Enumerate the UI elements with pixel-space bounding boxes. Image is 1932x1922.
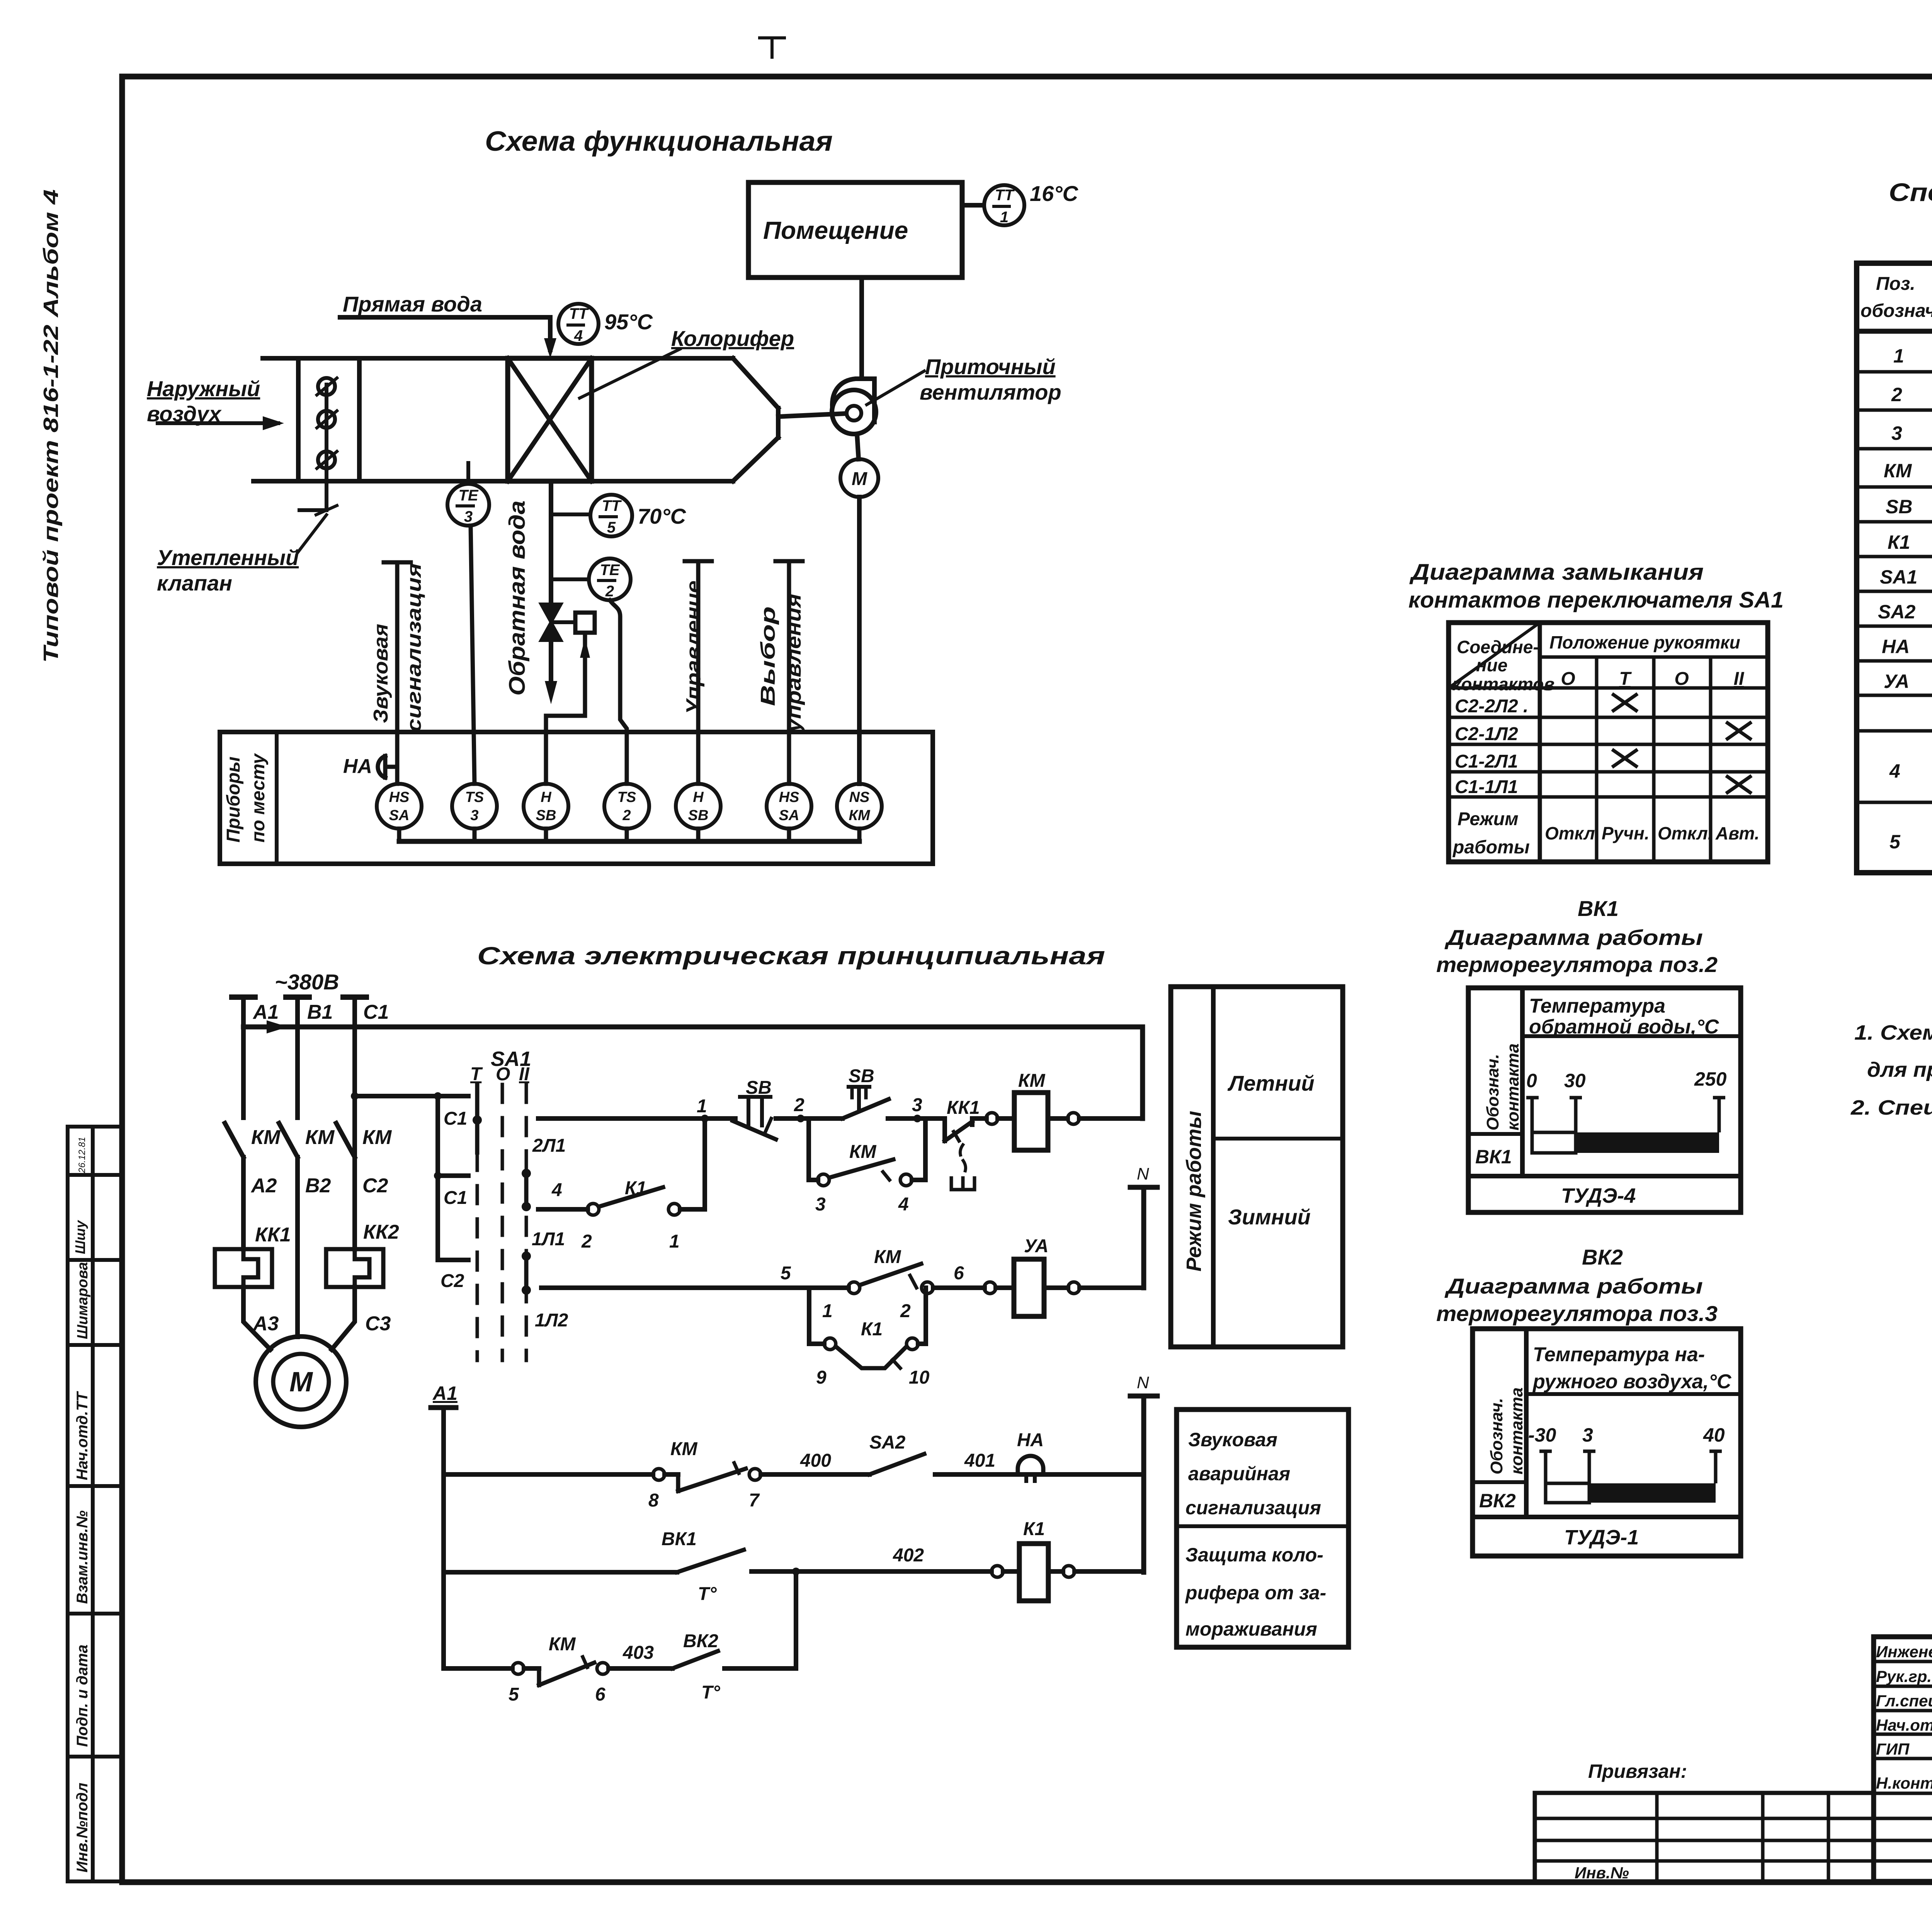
svg-text:Диаграмма замыкания: Диаграмма замыкания xyxy=(1409,560,1704,585)
svg-text:4: 4 xyxy=(551,1180,562,1200)
svg-text:~380В: ~380В xyxy=(275,970,339,994)
svg-text:С1-1Л1: С1-1Л1 xyxy=(1455,777,1518,797)
svg-text:УА: УА xyxy=(1884,671,1909,692)
BK1 scale ticks xyxy=(1526,1098,1725,1132)
svg-text:5: 5 xyxy=(1889,831,1901,853)
svg-text:SA2: SA2 xyxy=(1878,601,1915,623)
svg-text:1: 1 xyxy=(669,1231,680,1252)
duct section divider left xyxy=(296,358,301,481)
node 2 xyxy=(776,1115,842,1122)
svg-text:контактов: контактов xyxy=(1452,674,1554,694)
svg-text:10: 10 xyxy=(909,1367,930,1388)
bell HA symbol xyxy=(378,756,397,778)
svg-text:2: 2 xyxy=(794,1095,804,1115)
svg-text:ние: ние xyxy=(1476,655,1507,675)
SA1 C1 tap wire xyxy=(351,1092,468,1100)
left margin vertical project text xyxy=(39,189,63,663)
svg-text:SA1: SA1 xyxy=(1880,566,1917,588)
elec labels upper part xyxy=(250,1001,1149,1398)
wire TT5 tap xyxy=(551,512,590,516)
phase C1 input xyxy=(343,997,366,1118)
svg-text:Шимарова: Шимарова xyxy=(75,1262,91,1339)
rung 403: wire A1 to KM 5-6 xyxy=(444,1657,609,1685)
svg-text:TS: TS xyxy=(617,789,636,805)
thermostat contact VK1 xyxy=(677,1550,744,1572)
svg-text:КМ: КМ xyxy=(1018,1071,1046,1091)
svg-text:16°C: 16°C xyxy=(1030,181,1079,206)
thermal heater KK1 xyxy=(215,1249,272,1287)
svg-text:Летний: Летний xyxy=(1227,1071,1315,1095)
svg-text:аварийная: аварийная xyxy=(1188,1463,1290,1484)
KM main contact phase C xyxy=(336,1096,355,1249)
svg-text:Температура на-: Температура на- xyxy=(1533,1343,1705,1366)
svg-text:1: 1 xyxy=(697,1096,707,1117)
svg-text:О: О xyxy=(1674,669,1689,689)
wire room bottom to fan volute xyxy=(859,277,864,379)
svg-text:Управление: Управление xyxy=(682,581,705,715)
svg-text:SB: SB xyxy=(746,1078,772,1098)
wire 401 with bell HA xyxy=(935,1456,1144,1481)
svg-text:3: 3 xyxy=(464,508,473,525)
svg-text:Утепленный: Утепленный xyxy=(157,545,299,570)
svg-text:ТТ: ТТ xyxy=(995,187,1015,204)
svg-text:Спецификация на приборы: Спецификация на приборы и электроаппарат… xyxy=(1889,178,1932,206)
KM coil xyxy=(998,1093,1068,1150)
svg-text:Инв.№: Инв.№ xyxy=(1575,1864,1629,1882)
local instruments box xyxy=(220,732,933,864)
svg-text:К1: К1 xyxy=(625,1178,646,1198)
thermal heater KK2 xyxy=(326,1249,383,1287)
phase B1 input xyxy=(286,997,309,1118)
svg-text:9: 9 xyxy=(816,1367,827,1388)
SB stop button xyxy=(705,1097,776,1139)
svg-text:сигнализация: сигнализация xyxy=(403,563,425,732)
svg-text:400: 400 xyxy=(800,1450,831,1471)
rung 2L1 wire xyxy=(538,1116,705,1121)
svg-text:НА: НА xyxy=(1882,636,1910,657)
svg-text:клапан: клапан xyxy=(157,571,232,595)
svg-text:КМ: КМ xyxy=(362,1126,392,1149)
rung 1L1 wire xyxy=(538,1118,705,1215)
svg-text:2: 2 xyxy=(605,583,614,600)
left margin stamp strip xyxy=(68,1127,122,1881)
svg-text:Взам.инв.№: Взам.инв.№ xyxy=(74,1510,91,1604)
svg-text:ружного воздуха,°С: ружного воздуха,°С xyxy=(1532,1370,1732,1393)
BK2 scale ticks xyxy=(1539,1451,1722,1483)
svg-text:ТУДЭ-1: ТУДЭ-1 xyxy=(1564,1526,1639,1549)
svg-text:вентилятор: вентилятор xyxy=(920,380,1061,404)
svg-text:К1: К1 xyxy=(1023,1519,1045,1539)
svg-text:М: М xyxy=(289,1367,313,1398)
svg-text:4: 4 xyxy=(898,1194,909,1215)
svg-text:SB: SB xyxy=(1886,496,1912,518)
svg-text:КМ: КМ xyxy=(251,1126,281,1149)
svg-text:Диаграмма работы: Диаграмма работы xyxy=(1444,925,1703,950)
svg-text:H: H xyxy=(693,789,704,805)
svg-text:SB: SB xyxy=(688,807,709,824)
svg-text:Схема электрическая принцип: Схема электрическая принципиальная xyxy=(477,942,1105,970)
svg-text:Помещение: Помещение xyxy=(763,216,908,244)
functional schema labels xyxy=(147,181,1079,843)
svg-text:HS: HS xyxy=(389,789,410,805)
instrument TE2 xyxy=(589,558,631,600)
duct outlet cone xyxy=(733,358,778,481)
svg-text:С1: С1 xyxy=(444,1108,467,1129)
registration mark xyxy=(760,38,784,57)
svg-text:40: 40 xyxy=(1703,1424,1725,1446)
svg-text:1: 1 xyxy=(1893,345,1904,367)
svg-text:Рук.гр.: Рук.гр. xyxy=(1876,1667,1932,1685)
svg-text:2: 2 xyxy=(622,807,631,824)
SA1 position line T xyxy=(473,1084,482,1360)
svg-text:Зимний: Зимний xyxy=(1228,1205,1311,1229)
wire TE3 to TS3 xyxy=(471,526,474,784)
svg-text:N: N xyxy=(1137,1164,1149,1183)
SA1 table texts xyxy=(1452,632,1745,797)
bus line connecting bubbles xyxy=(399,829,859,841)
svg-text:Гл.спец.: Гл.спец. xyxy=(1876,1692,1932,1710)
BK2 table xyxy=(1473,1329,1741,1556)
svg-text:ТУДЭ-4: ТУДЭ-4 xyxy=(1561,1184,1636,1207)
svg-text:ВК2: ВК2 xyxy=(683,1631,718,1651)
svg-text:2: 2 xyxy=(900,1301,911,1321)
BK1 title xyxy=(1436,896,1718,977)
svg-text:4: 4 xyxy=(1889,760,1900,782)
svg-text:70°C: 70°C xyxy=(638,504,687,528)
bottom instrument bubbles row xyxy=(377,784,882,829)
svg-text:1: 1 xyxy=(822,1301,833,1321)
supply air duct top line xyxy=(263,356,733,361)
svg-text:SB: SB xyxy=(536,807,556,824)
svg-text:по месту: по месту xyxy=(248,753,269,843)
svg-text:403: 403 xyxy=(622,1643,654,1663)
svg-text:Температура: Температура xyxy=(1529,995,1665,1017)
instrument TT4 xyxy=(558,304,599,344)
svg-text:3: 3 xyxy=(1891,422,1902,444)
svg-text:КМ: КМ xyxy=(874,1247,901,1267)
svg-text:3: 3 xyxy=(815,1194,826,1215)
relay coil K1 xyxy=(992,1544,1144,1601)
svg-text:Соедине-: Соедине- xyxy=(1457,637,1539,657)
SA1 contact table xyxy=(1449,623,1768,862)
wire 400 xyxy=(761,1472,869,1477)
svg-text:С2-2Л2 .: С2-2Л2 . xyxy=(1455,696,1528,717)
room box Помещение xyxy=(748,182,962,277)
svg-text:Выбор: Выбор xyxy=(757,606,779,706)
mode box (Rezhim raboty) xyxy=(1171,987,1343,1347)
svg-text:контакта: контакта xyxy=(1507,1387,1526,1474)
instrument TT1 xyxy=(984,185,1024,225)
svg-text:2Л1: 2Л1 xyxy=(532,1135,566,1156)
node 3 xyxy=(888,1115,945,1122)
svg-text:Звуковая: Звуковая xyxy=(1188,1429,1277,1450)
svg-text:Подп. и дата: Подп. и дата xyxy=(74,1645,91,1747)
signatures texts xyxy=(1876,1643,1932,1792)
svg-text:6: 6 xyxy=(595,1684,605,1705)
svg-text:для приточной системы П2.: для приточной системы П2. xyxy=(1867,1058,1932,1081)
svg-text:5: 5 xyxy=(607,519,616,536)
svg-text:SA2: SA2 xyxy=(869,1432,906,1453)
svg-text:Шшу: Шшу xyxy=(72,1220,88,1254)
leader kolorifer label xyxy=(580,349,680,398)
svg-text:Схема функциональная: Схема функциональная xyxy=(485,126,833,157)
wire C3 to motor xyxy=(332,1287,355,1350)
wire TE2 tap xyxy=(551,577,588,581)
svg-text:терморегулятора поз.3: терморегулятора поз.3 xyxy=(1436,1301,1718,1326)
svg-text:1Л2: 1Л2 xyxy=(535,1310,568,1331)
svg-text:SA: SA xyxy=(779,807,799,824)
SA1 diagram title xyxy=(1408,560,1784,613)
svg-text:С1: С1 xyxy=(363,1001,389,1023)
switch SA2 xyxy=(869,1454,924,1474)
svg-text:КК1: КК1 xyxy=(947,1098,980,1118)
svg-text:II: II xyxy=(1734,669,1745,689)
K1 bypass 9-10 xyxy=(809,1288,926,1368)
svg-text:30: 30 xyxy=(1564,1070,1586,1091)
svg-text:Режим: Режим xyxy=(1458,809,1519,829)
svg-text:О: О xyxy=(1561,669,1575,689)
svg-text:7: 7 xyxy=(749,1490,760,1511)
svg-text:6: 6 xyxy=(954,1263,964,1284)
supply air duct bottom line xyxy=(253,479,733,483)
svg-text:НА: НА xyxy=(1017,1430,1044,1450)
svg-text:SB: SB xyxy=(849,1066,874,1086)
svg-text:А2: А2 xyxy=(250,1175,277,1197)
svg-text:А1: А1 xyxy=(252,1001,279,1023)
svg-text:КМ: КМ xyxy=(1884,460,1912,482)
svg-text:В1: В1 xyxy=(307,1001,333,1023)
svg-text:С2: С2 xyxy=(440,1271,464,1291)
wire M down to NS KM xyxy=(857,497,862,784)
svg-text:Нач.отд: Нач.отд xyxy=(1876,1716,1932,1734)
svg-text:Защита коло-: Защита коло- xyxy=(1185,1544,1323,1566)
motor M xyxy=(256,1336,346,1427)
neutral N tee (UA rung) xyxy=(1130,1187,1157,1288)
alarm labels xyxy=(432,1373,1149,1705)
svg-text:HS: HS xyxy=(779,789,799,805)
svg-text:С2: С2 xyxy=(362,1175,388,1197)
svg-text:ВК2: ВК2 xyxy=(1582,1245,1623,1269)
svg-text:С3: С3 xyxy=(365,1313,391,1335)
KM coil terminal left xyxy=(986,1113,998,1124)
signal line control select with tee xyxy=(776,561,803,784)
svg-text:ТТ: ТТ xyxy=(569,305,589,322)
fan (centrifugal) xyxy=(832,379,876,434)
svg-text:TS: TS xyxy=(465,789,484,805)
svg-text:А3: А3 xyxy=(252,1313,279,1335)
svg-text:управления: управления xyxy=(783,594,805,733)
spec header texts xyxy=(1861,274,1932,321)
BK2 title xyxy=(1436,1245,1718,1326)
svg-text:2. Спецификация составлена: 2. Спецификация составлена для приточных… xyxy=(1850,1096,1932,1119)
valve actuator square xyxy=(551,613,595,633)
KM aux bypass 3-4 xyxy=(809,1118,925,1186)
phase A1 input xyxy=(232,997,255,1118)
svg-text:НА: НА xyxy=(343,755,372,778)
rung 402: wire A1 to VK1 xyxy=(444,1570,677,1575)
leader to warm damper label xyxy=(298,515,327,553)
return water pipe xyxy=(545,481,557,704)
svg-text:К1: К1 xyxy=(861,1319,883,1340)
svg-text:Обратная вода: Обратная вода xyxy=(505,501,530,696)
svg-text:Инженер: Инженер xyxy=(1876,1643,1932,1661)
svg-text:ВК1: ВК1 xyxy=(1578,896,1619,921)
stamp strip rotated labels xyxy=(72,1137,91,1873)
leader fan label xyxy=(867,371,924,405)
BK1 bar xyxy=(1532,1132,1719,1153)
svg-text:N: N xyxy=(1137,1373,1149,1392)
svg-text:Поз.: Поз. xyxy=(1876,274,1915,294)
svg-text:ВК1: ВК1 xyxy=(662,1529,697,1549)
BK1 table xyxy=(1468,988,1741,1212)
SA1 position line O xyxy=(501,1084,504,1360)
motor circle M xyxy=(840,459,878,497)
svg-text:терморегулятора поз.2: терморегулятора поз.2 xyxy=(1436,952,1718,977)
svg-text:Типовой проект 816-1-22 Ал: Типовой проект 816-1-22 Альбом 4 xyxy=(39,189,63,663)
svg-text:SA: SA xyxy=(389,807,410,824)
svg-text:Откл.: Откл. xyxy=(1545,823,1600,843)
svg-text:Инв.№подл: Инв.№подл xyxy=(74,1782,91,1873)
svg-text:4: 4 xyxy=(574,327,583,344)
svg-text:Н.контр: Н.контр xyxy=(1876,1774,1932,1792)
svg-text:H: H xyxy=(541,789,552,805)
top control bus xyxy=(243,1020,1143,1118)
svg-text:Прямая вода: Прямая вода xyxy=(343,292,482,316)
direct water pipe xyxy=(340,317,556,358)
svg-text:Режим работы: Режим работы xyxy=(1182,1111,1206,1272)
svg-text:ТЕ: ТЕ xyxy=(600,562,620,579)
svg-text:рифера от за-: рифера от за- xyxy=(1185,1582,1326,1604)
signatures table xyxy=(1874,1637,1932,1881)
control valve body xyxy=(541,604,561,640)
signal line control with tee xyxy=(685,561,712,784)
svg-text:Привязан:: Привязан: xyxy=(1588,1760,1687,1782)
svg-text:Т: Т xyxy=(1619,669,1632,689)
thermostat contact VK2 xyxy=(672,1651,718,1668)
spec rows: pos column xyxy=(1878,345,1917,853)
node A1 feeder xyxy=(431,1408,456,1668)
svg-text:250: 250 xyxy=(1694,1068,1727,1090)
svg-text:К1: К1 xyxy=(1888,531,1910,553)
BK2 texts xyxy=(1479,1343,1732,1549)
heater box with X (kolorifer) xyxy=(508,358,592,481)
svg-text:Т°: Т° xyxy=(698,1584,717,1604)
svg-text:ТТ: ТТ xyxy=(602,497,622,514)
svg-text:Авт.: Авт. xyxy=(1715,823,1759,843)
svg-text:работы: работы xyxy=(1452,837,1530,858)
svg-text:Нач.отд.ТТ: Нач.отд.ТТ xyxy=(74,1391,91,1480)
svg-text:1. Схема выполнена для пр: 1. Схема выполнена для приточной системы… xyxy=(1854,1021,1932,1044)
svg-text:КМ: КМ xyxy=(305,1126,335,1149)
svg-text:5: 5 xyxy=(509,1684,519,1705)
wire cone to fan xyxy=(778,414,845,417)
BK1 texts xyxy=(1475,995,1727,1207)
svg-text:УА: УА xyxy=(1024,1236,1049,1256)
svg-text:КК2: КК2 xyxy=(363,1221,399,1243)
svg-text:1Л1: 1Л1 xyxy=(532,1229,565,1250)
spec table grid xyxy=(1857,263,1932,873)
svg-text:обратной воды,°С: обратной воды,°С xyxy=(1529,1016,1719,1038)
KK1 thermal contact xyxy=(945,1118,986,1190)
rung 1L2 wire xyxy=(541,1264,985,1294)
damper blades rod xyxy=(299,378,337,515)
junction wire 402 to 403 xyxy=(794,1571,798,1668)
svg-text:95°C: 95°C xyxy=(604,310,653,334)
wire 403 xyxy=(609,1666,672,1671)
wire A3 to motor xyxy=(243,1287,270,1350)
KM main contact phase A xyxy=(225,1123,243,1249)
svg-text:С1: С1 xyxy=(444,1188,467,1208)
svg-text:Колорифер: Колорифер xyxy=(671,326,794,351)
svg-text:ВК2: ВК2 xyxy=(1479,1490,1516,1512)
svg-text:контакта: контакта xyxy=(1503,1044,1522,1130)
wire 402 xyxy=(752,1568,992,1575)
SA1 position line II xyxy=(522,1084,531,1360)
svg-text:NS: NS xyxy=(849,789,870,805)
SA1 left bracket xyxy=(434,1096,468,1260)
BK2 bar xyxy=(1546,1483,1716,1503)
svg-text:Ручн.: Ручн. xyxy=(1602,823,1650,843)
svg-text:Диаграмма работы: Диаграмма работы xyxy=(1444,1274,1703,1298)
rung 400: wire A1 to KM 8-7 xyxy=(444,1463,761,1491)
svg-text:А1: А1 xyxy=(432,1382,457,1404)
svg-text:Т: Т xyxy=(470,1064,483,1084)
wire room to TT1 xyxy=(962,203,984,208)
wire actuator to H SB (L path with up arrow) xyxy=(546,633,590,784)
wire VK2 to junction xyxy=(724,1666,796,1671)
svg-text:С2-1Л2: С2-1Л2 xyxy=(1455,724,1518,744)
privyazan grid xyxy=(1535,1793,1874,1881)
svg-text:воздух: воздух xyxy=(147,402,222,426)
wire fan to motor M xyxy=(857,434,859,459)
KM coil terminal right xyxy=(1068,1113,1143,1124)
svg-text:1: 1 xyxy=(1000,209,1009,226)
svg-text:3: 3 xyxy=(912,1095,922,1115)
svg-text:обознач.: обознач. xyxy=(1861,301,1932,321)
svg-text:0: 0 xyxy=(1526,1070,1537,1091)
svg-text:Звуковая: Звуковая xyxy=(370,624,392,723)
wire TE2 down to TS2 xyxy=(610,600,627,784)
svg-text:Откл.: Откл. xyxy=(1658,823,1713,843)
svg-text:ТЕ: ТЕ xyxy=(458,487,478,504)
svg-text:8: 8 xyxy=(648,1490,659,1511)
SA1 table X marks xyxy=(1612,694,1752,793)
svg-text:КМ: КМ xyxy=(549,1634,576,1655)
svg-text:Приборы: Приборы xyxy=(223,756,244,843)
svg-text:С1-2Л1: С1-2Л1 xyxy=(1455,751,1518,772)
svg-text:3: 3 xyxy=(470,807,478,824)
duct section divider 2 xyxy=(357,358,362,481)
svg-text:26.12.81: 26.12.81 xyxy=(77,1137,87,1173)
svg-text:402: 402 xyxy=(893,1545,924,1566)
instrument TE3 stem xyxy=(466,463,470,484)
UA coil xyxy=(984,1259,1144,1316)
svg-text:5: 5 xyxy=(781,1263,791,1284)
outside air arrow xyxy=(158,421,278,425)
svg-text:КМ: КМ xyxy=(849,1142,877,1162)
svg-text:контактов переключателя SA1: контактов переключателя SA1 xyxy=(1408,587,1784,613)
svg-text:ГИП: ГИП xyxy=(1876,1740,1910,1758)
KM main contact phase B xyxy=(279,1123,298,1337)
svg-text:401: 401 xyxy=(964,1450,995,1471)
alarm function text box xyxy=(1177,1410,1349,1647)
svg-text:Т°: Т° xyxy=(701,1682,720,1703)
svg-text:2: 2 xyxy=(581,1231,592,1252)
node 1 junction xyxy=(701,1115,709,1122)
svg-text:В2: В2 xyxy=(305,1175,331,1197)
instrument TT5 xyxy=(590,495,632,536)
signal line sound alarm with tee xyxy=(384,562,411,784)
